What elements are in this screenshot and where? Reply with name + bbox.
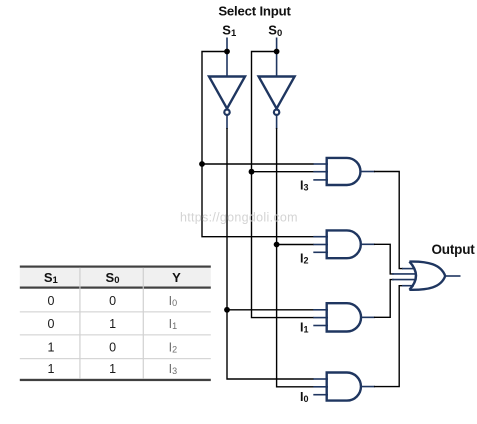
AND gate U6 pins bbox=[313, 379, 328, 395]
AND gate U5 bbox=[327, 303, 361, 331]
inverter U1 bbox=[209, 77, 245, 115]
wire S0 input stub bbox=[276, 38, 278, 78]
svg-text:1: 1 bbox=[48, 340, 55, 354]
table top border bbox=[20, 266, 211, 268]
svg-text:1: 1 bbox=[109, 317, 116, 331]
table row separator 1 bbox=[20, 311, 211, 312]
AND gate U3 output stub bbox=[360, 171, 375, 173]
table bottom border bbox=[20, 379, 211, 381]
svg-text:I2: I2 bbox=[169, 340, 178, 354]
svg-text:I2: I2 bbox=[300, 251, 309, 265]
svg-text:https://gongdoli.com: https://gongdoli.com bbox=[180, 211, 298, 225]
svg-text:I1: I1 bbox=[169, 317, 178, 331]
OR gate U7 output stub bbox=[445, 275, 461, 277]
wire S1 branch to AND1 bbox=[202, 163, 314, 165]
wire net S1 (non-inverted) bbox=[202, 52, 314, 237]
table row separator 2 bbox=[20, 334, 211, 335]
OR input pin 2 bbox=[392, 273, 416, 275]
table row 1 bbox=[48, 294, 178, 308]
svg-text:0: 0 bbox=[109, 294, 116, 308]
node S0 junction bbox=[274, 49, 280, 55]
OR input pin 4 bbox=[402, 285, 414, 287]
node S0inv-AND2 junction bbox=[274, 242, 280, 248]
wire S0-inverted branch to AND2 bbox=[277, 244, 314, 246]
node S1-AND1 junction bbox=[199, 161, 205, 167]
AND gate U4 bbox=[327, 230, 361, 258]
table row 2 bbox=[48, 317, 178, 331]
node S0-AND1 junction bbox=[249, 169, 255, 175]
svg-text:I3: I3 bbox=[169, 362, 178, 376]
svg-text:I1: I1 bbox=[300, 321, 309, 335]
svg-text:0: 0 bbox=[48, 294, 55, 308]
OR input pin 1 bbox=[402, 268, 414, 270]
svg-text:I3: I3 bbox=[300, 179, 309, 193]
svg-text:Select Input: Select Input bbox=[218, 3, 291, 18]
AND gate U3 bbox=[327, 158, 361, 185]
table column separator 1 bbox=[79, 268, 80, 379]
svg-text:I0: I0 bbox=[169, 294, 178, 308]
table header bottom border bbox=[20, 287, 211, 289]
wire net S1-inverted bbox=[227, 128, 314, 379]
wire AND4 output to OR bbox=[374, 286, 403, 387]
AND gate U3 pins bbox=[313, 164, 328, 180]
svg-text:1: 1 bbox=[109, 362, 116, 376]
svg-text:S0: S0 bbox=[268, 23, 282, 39]
table row 3 bbox=[48, 340, 178, 354]
inverter U2 bbox=[259, 77, 295, 115]
OR input pin 3 bbox=[392, 279, 416, 281]
svg-text:S1: S1 bbox=[222, 23, 237, 39]
AND gate U6 bbox=[327, 373, 361, 401]
inverter U2 output stub bbox=[276, 115, 278, 129]
table row 4 bbox=[48, 362, 178, 376]
table row separator 3 bbox=[20, 358, 211, 359]
wire net S0-inverted bbox=[277, 128, 314, 387]
AND gate U5 output stub bbox=[361, 316, 375, 318]
OR gate U7 bbox=[409, 262, 445, 290]
AND gate U6 output stub bbox=[361, 386, 375, 388]
wire net S0 (non-inverted) bbox=[252, 52, 314, 318]
svg-text:I0: I0 bbox=[300, 390, 309, 404]
wire AND1 output to OR bbox=[374, 172, 403, 269]
node S1 junction bbox=[224, 49, 230, 55]
truth table bbox=[20, 266, 211, 382]
inverter U1 output stub bbox=[226, 115, 228, 129]
svg-text:0: 0 bbox=[109, 340, 116, 354]
AND gate U4 output stub bbox=[361, 243, 375, 245]
AND gate U4 pins bbox=[313, 237, 328, 253]
wire S1 input stub bbox=[226, 38, 228, 78]
node S1inv-AND3 junction bbox=[224, 307, 230, 313]
svg-text:0: 0 bbox=[48, 317, 55, 331]
svg-text:Y: Y bbox=[172, 270, 181, 285]
table column separator 2 bbox=[143, 268, 144, 379]
AND gate U5 pins bbox=[313, 310, 328, 326]
wire AND2 output to OR bbox=[374, 244, 394, 274]
wire S1-inverted branch to AND3 bbox=[227, 309, 314, 311]
wire S0 branch to AND1 bbox=[252, 171, 314, 173]
svg-text:Output: Output bbox=[432, 242, 476, 257]
wire AND3 output to OR bbox=[374, 280, 394, 318]
svg-text:1: 1 bbox=[48, 362, 55, 376]
table header background bbox=[20, 268, 211, 287]
